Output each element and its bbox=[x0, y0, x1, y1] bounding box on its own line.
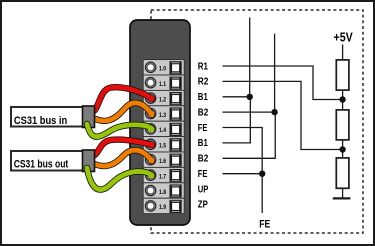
wire orange bus-in to 1.3 bbox=[92, 103, 152, 121]
terminal cell 1.3 bbox=[143, 106, 184, 121]
wire +5V lead bbox=[342, 45, 344, 61]
wire net B1 second row bbox=[223, 97, 251, 143]
terminal cell 1.4 bbox=[143, 121, 184, 136]
wire green bus-in to 1.4 bbox=[87, 124, 152, 137]
svg-text:1.2: 1.2 bbox=[159, 97, 167, 103]
svg-text:1.0: 1.0 bbox=[159, 67, 167, 73]
svg-text:1.8: 1.8 bbox=[159, 190, 167, 196]
wire stub B1 vertical bbox=[249, 18, 251, 97]
wire net R1 bbox=[223, 66, 340, 100]
wire end disc terminal 1.7 bbox=[148, 173, 154, 179]
cable connector bus-out bbox=[83, 150, 95, 172]
svg-text:1.1: 1.1 bbox=[159, 82, 167, 88]
cable CS31 bus in body bbox=[11, 107, 84, 127]
wire red bus-out to 1.5 bbox=[91, 140, 153, 157]
dashed module boundary bbox=[151, 10, 363, 233]
wire net B2 second row bbox=[223, 112, 276, 158]
resistor R2 of divider bbox=[336, 110, 349, 140]
wire net FE with vertical bbox=[223, 128, 263, 214]
svg-text:FE: FE bbox=[198, 169, 208, 180]
wire divider lead 2 bbox=[342, 140, 344, 158]
terminal cell 1.0 bbox=[143, 60, 184, 75]
svg-text:1.7: 1.7 bbox=[159, 174, 167, 180]
junction node B2 bbox=[271, 109, 277, 115]
terminal block body bbox=[130, 20, 190, 225]
svg-text:R2: R2 bbox=[198, 77, 209, 88]
wire net FE second row bbox=[223, 173, 263, 175]
svg-text:B2: B2 bbox=[198, 107, 209, 118]
wire end disc terminal 1.5 bbox=[148, 142, 154, 148]
terminal cell 1.9 bbox=[143, 198, 184, 213]
ground bar bbox=[333, 197, 351, 199]
svg-text:+5V: +5V bbox=[334, 31, 354, 45]
terminal cell 1.1 bbox=[143, 75, 184, 90]
svg-text:1.5: 1.5 bbox=[159, 144, 167, 150]
svg-text:UP: UP bbox=[198, 184, 209, 195]
svg-text:R1: R1 bbox=[198, 61, 209, 72]
svg-text:CS31 bus in: CS31 bus in bbox=[14, 115, 68, 127]
svg-text:CS31 bus out: CS31 bus out bbox=[14, 159, 69, 171]
terminal cell 1.6 bbox=[143, 152, 184, 167]
svg-text:1.6: 1.6 bbox=[159, 159, 167, 165]
wire end disc terminal 1.2 bbox=[148, 96, 154, 102]
wire end disc terminal 1.3 bbox=[148, 111, 154, 117]
svg-text:FE: FE bbox=[198, 123, 208, 134]
terminal cell 1.7 bbox=[143, 167, 184, 182]
svg-text:1.3: 1.3 bbox=[159, 113, 167, 119]
junction node divider bottom bbox=[339, 146, 345, 152]
wire net B1 bbox=[223, 96, 250, 98]
junction node divider top bbox=[339, 96, 345, 102]
wire green bus-out to 1.7 bbox=[87, 168, 152, 190]
svg-text:1.4: 1.4 bbox=[159, 128, 167, 134]
wire stub B2 vertical bbox=[274, 34, 276, 112]
wire divider lead 1 bbox=[342, 90, 344, 110]
svg-text:B1: B1 bbox=[198, 138, 208, 149]
cable connector bus-in bbox=[83, 106, 95, 128]
terminal cell 1.2 bbox=[143, 90, 184, 105]
junction node B1 bbox=[247, 94, 253, 100]
resistor R3 of divider bbox=[336, 158, 349, 188]
junction node FE bbox=[259, 171, 265, 177]
cable CS31 bus out body bbox=[11, 151, 84, 171]
terminal cell 1.8 bbox=[143, 183, 184, 198]
svg-text:ZP: ZP bbox=[198, 200, 208, 211]
wire net R2 bbox=[223, 81, 340, 149]
wire orange bus-out to 1.6 bbox=[92, 150, 152, 166]
wire end disc terminal 1.4 bbox=[148, 126, 154, 132]
svg-text:B1: B1 bbox=[198, 92, 208, 103]
resistor R1 of divider bbox=[336, 60, 349, 90]
wire net B2 bbox=[223, 111, 275, 113]
wire red bus-in to 1.2 bbox=[91, 87, 153, 112]
terminal cell 1.5 bbox=[143, 137, 184, 152]
svg-text:FE: FE bbox=[259, 218, 270, 230]
wire end disc terminal 1.6 bbox=[148, 157, 154, 163]
svg-text:B2: B2 bbox=[198, 154, 209, 165]
wire divider lead 3 bbox=[342, 188, 344, 198]
svg-text:1.9: 1.9 bbox=[159, 205, 167, 211]
